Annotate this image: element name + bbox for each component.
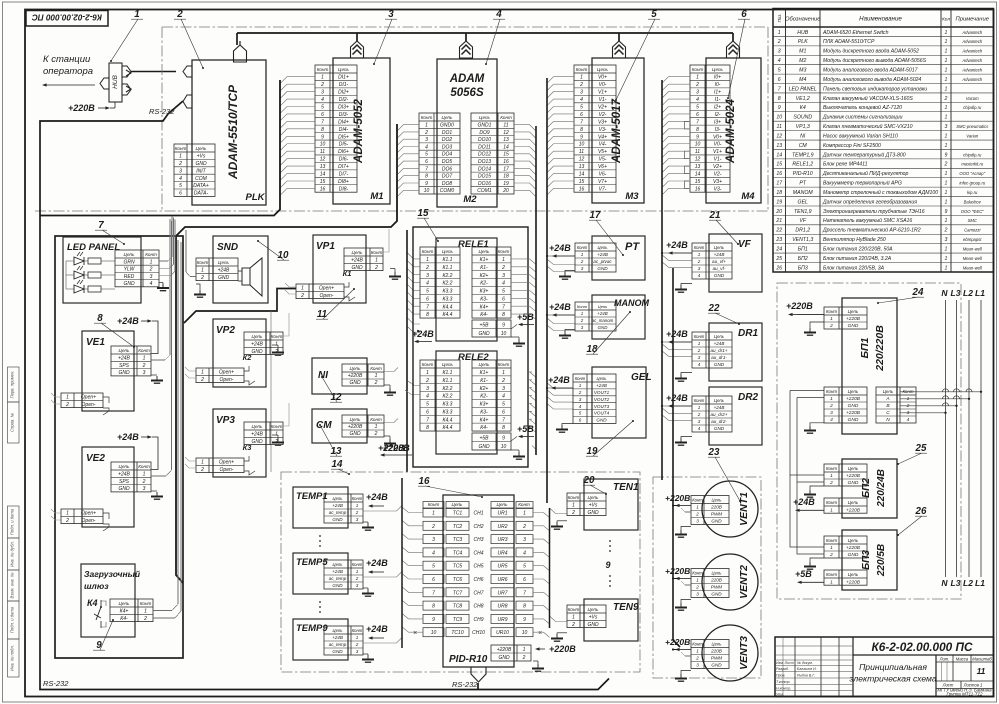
svg-text:К1: К1: [343, 269, 352, 278]
svg-text:+24В: +24В: [332, 503, 343, 508]
wire harness trunk M1: [40, 80, 280, 216]
svg-text:1: 1: [580, 75, 583, 81]
svg-text:К3-: К3-: [480, 409, 488, 415]
svg-text:2: 2: [143, 616, 147, 622]
svg-text:CH1: CH1: [473, 511, 483, 517]
svg-text:RELE1,2: RELE1,2: [792, 162, 813, 168]
svg-text:LED PANEL: LED PANEL: [789, 86, 817, 92]
svg-text:+24В: +24В: [548, 375, 570, 385]
svg-text:21: 21: [775, 218, 782, 224]
svg-text:CH4: CH4: [473, 550, 483, 556]
svg-text:К3.3: К3.3: [443, 402, 453, 408]
svg-text:Camozzi: Camozzi: [964, 228, 981, 233]
svg-text:14: 14: [332, 459, 343, 470]
svg-text:Блок питания 220/24В, 3.2А: Блок питания 220/24В, 3.2А: [823, 256, 892, 262]
svg-text:Конт: Конт: [138, 464, 150, 469]
svg-text:kip.ru: kip.ru: [967, 190, 978, 195]
svg-text:6: 6: [426, 296, 429, 302]
svg-text:Взам. инв. №: Взам. инв. №: [10, 572, 15, 598]
svg-text:Рыбов В.Г.: Рыбов В.Г.: [797, 674, 815, 678]
wire stubs M2 left outputs: [398, 125, 420, 197]
svg-text:6: 6: [523, 577, 526, 583]
svg-text:Цепь: Цепь: [196, 146, 208, 151]
svg-text:Конт: Конт: [692, 570, 703, 575]
svg-text:ADAM-5510/TCP: ADAM-5510/TCP: [226, 84, 240, 180]
svg-text:3: 3: [388, 9, 394, 20]
svg-text:DI6-: DI6-: [339, 157, 349, 163]
svg-text:1: 1: [201, 370, 204, 376]
svg-text:Цепь: Цепь: [497, 502, 509, 507]
svg-text:DO1: DO1: [442, 130, 453, 136]
label +24В at BP2: [793, 497, 824, 512]
svg-text:К4+: К4+: [480, 304, 489, 310]
svg-text:9: 9: [432, 617, 435, 623]
svg-text:Т.контр.: Т.контр.: [776, 680, 791, 684]
relay block RELE1: [420, 238, 511, 341]
svg-text:V6+: V6+: [598, 164, 607, 170]
svg-text:TC1: TC1: [453, 511, 463, 517]
svg-text:9: 9: [778, 105, 781, 111]
svg-text:1: 1: [356, 635, 359, 640]
svg-text:К4-: К4-: [480, 425, 488, 431]
svg-text:4: 4: [579, 404, 582, 409]
vacuum leak valve VF: [692, 234, 762, 292]
svg-text:К3.3: К3.3: [443, 289, 453, 295]
svg-text:8: 8: [432, 604, 435, 610]
sound block SND: [213, 236, 268, 303]
svg-text:Цепь: Цепь: [479, 115, 491, 120]
svg-text:Блок питания 220/5В, 3А: Блок питания 220/5В, 3А: [823, 265, 885, 271]
svg-text:Примечание: Примечание: [956, 17, 990, 23]
svg-text:ADAM-6520 Ethernet Switch: ADAM-6520 Ethernet Switch: [822, 30, 889, 36]
svg-text:TEMP5: TEMP5: [296, 557, 328, 568]
svg-text:UR9: UR9: [497, 617, 507, 623]
svg-text:ebmpapst: ebmpapst: [963, 237, 982, 242]
svg-text:3: 3: [698, 419, 701, 424]
ground at VP3: [272, 435, 284, 445]
NI pin table: [342, 364, 384, 386]
svg-text:ООО "ФЕС": ООО "ФЕС": [961, 209, 985, 214]
svg-text:15: 15: [320, 179, 326, 185]
svg-text:INIT: INIT: [196, 168, 206, 174]
wire stubs M2 right outputs and RELE2: [514, 125, 536, 449]
svg-text:Advantech: Advantech: [961, 68, 982, 73]
svg-text:GND: GND: [714, 426, 725, 431]
svg-text:M2: M2: [799, 58, 806, 64]
svg-text:2: 2: [425, 265, 429, 271]
svg-text:CH3: CH3: [473, 537, 483, 543]
svg-text:5: 5: [651, 9, 657, 20]
svg-text:V3+: V3+: [598, 119, 607, 125]
svg-text:2: 2: [142, 479, 146, 485]
svg-text:DI7-: DI7-: [339, 172, 349, 178]
svg-text:8: 8: [426, 425, 429, 431]
svg-text:RS-232: RS-232: [452, 680, 478, 689]
svg-text:3: 3: [321, 90, 324, 96]
svg-text:К1-: К1-: [480, 378, 488, 384]
svg-text:2: 2: [431, 524, 435, 530]
svg-text:2: 2: [695, 512, 699, 517]
ground at RELE2: [511, 450, 525, 459]
svg-text:16: 16: [695, 186, 701, 192]
svg-text:1: 1: [945, 30, 948, 36]
svg-text:11: 11: [503, 123, 508, 129]
svg-text:VP1: VP1: [316, 241, 335, 252]
wire harness trunk thermocouples: [401, 478, 403, 648]
svg-text:11: 11: [320, 149, 325, 155]
svg-text:6: 6: [502, 296, 505, 302]
svg-text:25: 25: [775, 256, 782, 262]
svg-text:GND: GND: [478, 444, 490, 450]
svg-text:Конт: Конт: [826, 500, 837, 505]
svg-text:Конт: Конт: [694, 398, 705, 403]
svg-text:4: 4: [432, 550, 435, 556]
svg-text:5: 5: [432, 564, 435, 570]
svg-text:Vacom: Vacom: [966, 96, 979, 101]
module ADAM-5024 M4: [706, 41, 761, 203]
svg-text:14: 14: [776, 152, 782, 158]
svg-text:DATA+: DATA+: [193, 183, 209, 189]
svg-text:Open-: Open-: [220, 467, 234, 473]
svg-text:5: 5: [179, 183, 182, 189]
wires VE1 SPS: [152, 219, 171, 360]
svg-text:1: 1: [778, 30, 781, 36]
svg-text:220В: 220В: [710, 505, 722, 510]
svg-text:+220В: +220В: [786, 301, 813, 311]
svg-text:23: 23: [708, 447, 720, 458]
svg-text:MANOM: MANOM: [614, 298, 649, 308]
svg-text:1: 1: [150, 259, 153, 265]
svg-text:8: 8: [321, 127, 324, 133]
svg-text:3: 3: [432, 537, 435, 543]
svg-text:DI3+: DI3+: [338, 104, 349, 110]
svg-text:Цепь: Цепь: [598, 304, 608, 309]
svg-text:4: 4: [523, 550, 526, 556]
svg-text:Справ. №: Справ. №: [10, 413, 15, 432]
svg-text:Вентилятор HyBlade 250: Вентилятор HyBlade 250: [823, 237, 886, 243]
svg-text:3: 3: [579, 397, 582, 402]
svg-text:2: 2: [355, 642, 359, 647]
svg-text:DI6+: DI6+: [338, 149, 349, 155]
svg-text:Конт: Конт: [826, 538, 837, 543]
svg-text:L2: L2: [963, 288, 973, 298]
svg-text:25: 25: [915, 443, 927, 454]
svg-text:2: 2: [697, 412, 701, 417]
svg-text:Балашов И.: Балашов И.: [797, 667, 817, 671]
svg-text:chipdip.ru: chipdip.ru: [963, 152, 982, 157]
svg-text:TEN1,9: TEN1,9: [794, 209, 812, 215]
svg-text:TC3: TC3: [453, 537, 463, 543]
svg-text:DI7+: DI7+: [338, 164, 349, 170]
svg-text:Утв.: Утв.: [776, 693, 784, 697]
svg-text:L1: L1: [975, 288, 985, 298]
svg-text:10: 10: [424, 188, 430, 194]
svg-text:6: 6: [580, 112, 583, 118]
temp sensor TEMP9: [293, 619, 363, 660]
svg-text:2: 2: [176, 9, 183, 20]
svg-text:12: 12: [579, 157, 585, 163]
svg-text:3: 3: [830, 410, 833, 416]
heater TEN9: [584, 599, 639, 641]
wires BP1 to mains: [900, 389, 982, 414]
svg-text:M1: M1: [799, 49, 806, 55]
svg-text:Конт: Конт: [826, 309, 837, 314]
svg-text:2: 2: [374, 265, 378, 271]
svg-text:GND: GND: [251, 439, 263, 445]
ethernet bus wire: [237, 33, 733, 45]
svg-text:1: 1: [698, 252, 701, 257]
svg-text:DI4-: DI4-: [339, 127, 349, 133]
svg-text:TEN1: TEN1: [613, 482, 639, 493]
svg-text:4: 4: [179, 176, 182, 182]
svg-text:5056S: 5056S: [450, 87, 484, 99]
svg-text:Balashov: Balashov: [964, 199, 982, 204]
svg-text:DI3-: DI3-: [339, 112, 349, 118]
svg-text:CH8: CH8: [473, 604, 483, 610]
svg-text:7: 7: [696, 119, 699, 125]
pneumatic valve VP2: [185, 313, 289, 387]
ground at BP2: [804, 486, 824, 497]
x mark left of PID row10: [413, 630, 417, 637]
svg-text:К1.1: К1.1: [443, 370, 453, 376]
BP2 input table: [824, 464, 867, 486]
dots and label 9 between TEN: [605, 540, 610, 587]
svg-text:+24В: +24В: [117, 316, 139, 326]
ground at TEN1: [551, 521, 567, 529]
svg-text:L1: L1: [975, 578, 985, 588]
fan VENT2: [665, 554, 758, 610]
svg-text:VENT1: VENT1: [738, 492, 750, 526]
M3 pin table: [574, 65, 616, 192]
svg-text:220В: 220В: [710, 649, 722, 654]
svg-text:БП2: БП2: [861, 478, 872, 498]
svg-text:Пров.: Пров.: [776, 674, 785, 678]
svg-text:+24В: +24В: [666, 240, 688, 250]
limit switch K4: [87, 598, 106, 628]
svg-text:1: 1: [945, 181, 948, 187]
ground at RELE1: [511, 337, 525, 346]
svg-text:I0+: I0+: [714, 75, 721, 81]
svg-text:ADAM-5052: ADAM-5052: [353, 98, 365, 164]
svg-text:Обозначение: Обозначение: [785, 17, 821, 23]
svg-text:Конт: Конт: [692, 641, 703, 646]
svg-text:UR3: UR3: [497, 537, 507, 543]
svg-text:Цепь: Цепь: [848, 466, 859, 471]
svg-text:5: 5: [502, 289, 505, 295]
svg-text:10: 10: [776, 115, 782, 121]
svg-text:14: 14: [579, 172, 585, 178]
svg-text:GND: GND: [332, 649, 343, 654]
svg-text:Конт: Конт: [370, 366, 382, 371]
svg-text:20: 20: [775, 209, 782, 215]
svg-text:+5В: +5В: [517, 424, 534, 434]
svg-text:UR10: UR10: [496, 630, 509, 636]
svg-text:4: 4: [502, 394, 505, 400]
svg-text:Загрузочный: Загрузочный: [84, 569, 141, 579]
M1 pin table: [315, 65, 357, 192]
svg-text:+220В: +220В: [846, 473, 861, 479]
svg-text:К1-: К1-: [480, 265, 488, 271]
wire harness trunk heaters: [549, 508, 551, 628]
svg-text:3: 3: [696, 519, 699, 524]
plc ADAM-5510/TCP U-PLK: [183, 41, 266, 205]
svg-text:DO8: DO8: [442, 181, 453, 187]
svg-text:1: 1: [144, 609, 147, 615]
svg-text:ПЛК ADAM-5510/TCP: ПЛК ADAM-5510/TCP: [823, 39, 875, 45]
svg-text:Цепь: Цепь: [714, 398, 724, 403]
svg-text:V1-: V1-: [599, 97, 607, 103]
svg-text:2: 2: [522, 524, 526, 530]
svg-text:Цепь: Цепь: [712, 497, 722, 502]
svg-text:5: 5: [696, 104, 699, 110]
svg-text:16: 16: [503, 159, 509, 165]
svg-text:+220В: +220В: [348, 373, 363, 379]
svg-text:PT: PT: [799, 181, 806, 187]
svg-text:GND: GND: [498, 655, 510, 661]
svg-text:Open+: Open+: [81, 511, 96, 517]
svg-text:2: 2: [374, 380, 378, 386]
svg-text:Open-: Open-: [82, 402, 96, 408]
svg-text:11: 11: [777, 124, 782, 130]
svg-text:3: 3: [426, 273, 429, 279]
wires VE2 SPS: [152, 221, 172, 476]
svg-text:Выключатель концевой AZ-7120: Выключатель концевой AZ-7120: [823, 104, 902, 111]
svg-text:Цепь: Цепь: [588, 495, 600, 500]
svg-text:1: 1: [426, 257, 429, 263]
svg-text:2: 2: [425, 378, 429, 384]
svg-text:NI: NI: [800, 133, 806, 139]
callout 21: [709, 210, 739, 245]
BP3 output table: [824, 570, 867, 585]
svg-text:К1+: К1+: [480, 370, 489, 376]
PID power table: [491, 645, 531, 661]
svg-text:Цепь: Цепь: [119, 464, 131, 469]
svg-text:+220В: +220В: [348, 424, 363, 430]
svg-text:Цепь: Цепь: [598, 245, 608, 250]
svg-text:I2+: I2+: [714, 104, 721, 110]
svg-text:2: 2: [149, 267, 153, 273]
svg-text:1: 1: [523, 511, 526, 517]
wires vent power taps: [672, 504, 678, 650]
svg-text:1: 1: [375, 424, 378, 430]
ground at TEMP1: [362, 522, 374, 530]
svg-text:8: 8: [97, 313, 103, 324]
svg-text:1: 1: [696, 75, 699, 81]
svg-text:К1+: К1+: [480, 257, 489, 263]
svg-text:Цепь: Цепь: [479, 249, 491, 254]
svg-text:К3.3: К3.3: [443, 409, 453, 415]
svg-text:3: 3: [356, 649, 359, 654]
svg-text:DO2: DO2: [442, 137, 453, 143]
svg-text:1: 1: [696, 649, 699, 654]
svg-text:2: 2: [65, 518, 69, 524]
callout 6: [727, 9, 750, 99]
svg-text:Клапан вакуумный VACOM-XLS-160: Клапан вакуумный VACOM-XLS-160S: [823, 95, 913, 102]
svg-text:GND: GND: [332, 517, 343, 522]
svg-text:M3: M3: [799, 68, 806, 74]
svg-text:Цепь: Цепь: [442, 249, 454, 254]
svg-text:Модуль аналогового вывода ADAM: Модуль аналогового вывода ADAM-5024: [823, 77, 921, 83]
svg-text:12: 12: [776, 133, 782, 139]
svg-text:С: С: [886, 410, 890, 416]
svg-text:Цепь: Цепь: [350, 417, 362, 422]
svg-text:Цепь: Цепь: [714, 245, 724, 250]
svg-text:К2: К2: [243, 353, 253, 362]
svg-text:+24В: +24В: [596, 383, 607, 388]
svg-text:8: 8: [778, 96, 781, 102]
svg-text:GND: GND: [123, 281, 135, 287]
svg-text:Клапан пневматический SMC-VX21: Клапан пневматический SMC-VX210: [823, 123, 913, 130]
label +5В at BP3: [795, 569, 824, 584]
gate pin table: [110, 599, 153, 622]
svg-text:LED PANEL: LED PANEL: [67, 242, 120, 253]
label +220В at BP1: [786, 301, 824, 316]
svg-text:К1.1: К1.1: [443, 265, 453, 271]
svg-text:DO15: DO15: [478, 174, 491, 180]
svg-text:15: 15: [418, 208, 429, 219]
svg-text:ac_temp: ac_temp: [329, 576, 347, 581]
svg-text:M1: M1: [370, 191, 383, 202]
label +24В at TEMP9: [366, 624, 388, 640]
svg-text:GND: GND: [587, 510, 599, 516]
svg-text:au_vf-: au_vf-: [713, 266, 726, 271]
ground at BP3: [804, 558, 824, 569]
svg-text:1: 1: [945, 218, 948, 224]
svg-text:2: 2: [142, 363, 146, 369]
fan VENT3: [665, 625, 758, 681]
svg-text:Цепь: Цепь: [883, 389, 894, 394]
svg-text:Вакуумметр термопарный APG: Вакуумметр термопарный APG: [823, 180, 902, 187]
svg-text:2: 2: [571, 510, 575, 516]
svg-text:ADAM: ADAM: [449, 73, 485, 85]
svg-text:3: 3: [698, 355, 701, 360]
svg-text:Advantech: Advantech: [961, 49, 982, 54]
svg-text:V4-: V4-: [599, 142, 607, 148]
svg-text:+24В: +24В: [714, 405, 725, 410]
svg-text:Модуль аналогового ввода ADAM-: Модуль аналогового ввода ADAM-5017: [823, 68, 919, 74]
svg-text:11: 11: [977, 666, 986, 676]
svg-text:+24В: +24В: [366, 624, 388, 634]
svg-text:9: 9: [580, 134, 583, 140]
svg-text:3: 3: [425, 137, 428, 143]
svg-text:7: 7: [321, 119, 324, 125]
svg-text:Конт: Конт: [826, 466, 837, 471]
svg-text:Конт: Конт: [370, 417, 382, 422]
svg-text:22: 22: [708, 303, 720, 314]
dots between TEMP1 TEMP5: [319, 535, 321, 547]
wires LED PANEL to bundle: [159, 216, 175, 275]
svg-text:3: 3: [696, 663, 699, 668]
compressor CM: [312, 409, 367, 443]
svg-text:4: 4: [778, 58, 781, 64]
label +24В at DR1: [661, 329, 692, 344]
svg-text:220/24В: 220/24В: [876, 469, 887, 508]
svg-text:7: 7: [502, 304, 505, 310]
svg-text:5: 5: [502, 402, 505, 408]
svg-text:GND: GND: [711, 519, 722, 524]
svg-text:Модуль дискретного вывода ADAM: Модуль дискретного вывода ADAM-5056S: [823, 58, 927, 64]
svg-text:1: 1: [830, 507, 833, 513]
svg-text:Конт: Конт: [428, 502, 440, 507]
svg-text:5: 5: [426, 289, 429, 295]
callout 24: [877, 287, 924, 304]
svg-text:3: 3: [580, 90, 583, 96]
PID connector RS-232: [471, 667, 486, 682]
svg-text:infec-group.ru: infec-group.ru: [959, 181, 986, 186]
svg-text:Конт: Конт: [145, 252, 157, 257]
svg-text:4: 4: [321, 97, 324, 103]
svg-text:Поз.: Поз.: [777, 14, 782, 23]
